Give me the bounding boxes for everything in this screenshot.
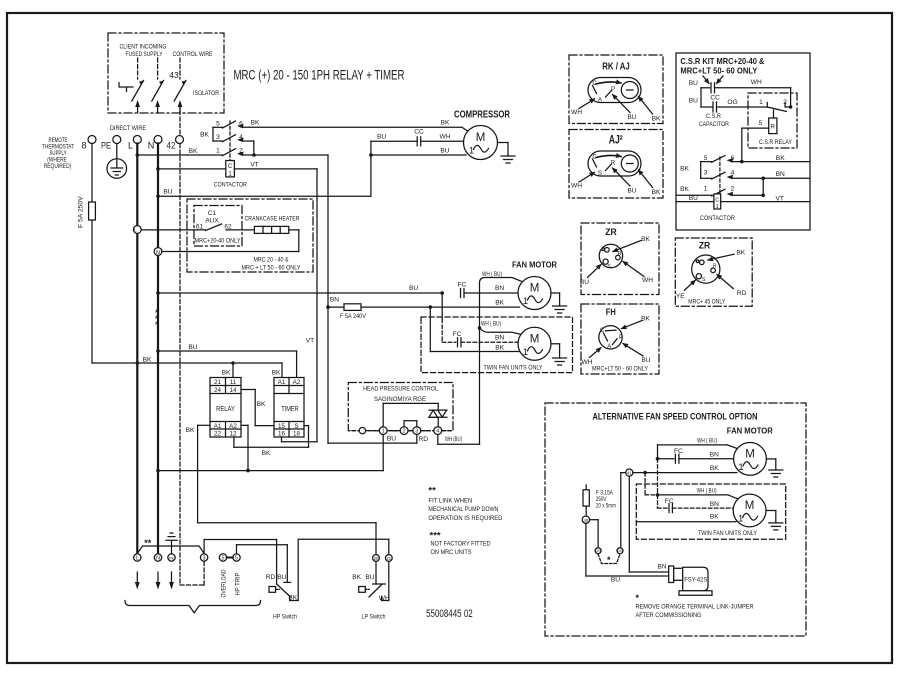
svg-text:BK: BK	[288, 595, 297, 602]
svg-text:20 x 5mm: 20 x 5mm	[596, 503, 616, 510]
svg-text:2: 2	[783, 99, 787, 106]
svg-text:3: 3	[704, 170, 708, 177]
svg-text:C.S.R RELAY: C.S.R RELAY	[759, 139, 792, 146]
svg-text:C: C	[228, 164, 233, 170]
svg-text:TWIN FAN UNITS ONLY: TWIN FAN UNITS ONLY	[698, 530, 757, 537]
svg-text:OG: OG	[617, 549, 623, 553]
svg-text:4: 4	[239, 134, 243, 141]
svg-text:BU: BU	[377, 133, 386, 140]
svg-text:MRC+LT 50- 60 ONLY: MRC+LT 50- 60 ONLY	[680, 66, 757, 76]
svg-text:C: C	[592, 81, 597, 87]
svg-text:FH: FH	[606, 307, 616, 318]
svg-text:CONTACTOR: CONTACTOR	[700, 215, 735, 222]
svg-text:BK: BK	[251, 120, 260, 127]
svg-text:P: P	[611, 87, 615, 93]
svg-text:FSY-42S: FSY-42S	[684, 577, 708, 584]
svg-text:R: R	[713, 263, 717, 269]
svg-text:BK: BK	[262, 450, 271, 457]
svg-text:M: M	[530, 283, 540, 295]
svg-text:MRC (+) 20 - 150 1PH RELAY + T: MRC (+) 20 - 150 1PH RELAY + TIMER	[234, 68, 405, 83]
svg-text:1: 1	[216, 148, 220, 155]
svg-text:BU: BU	[387, 436, 396, 443]
svg-text:N: N	[156, 250, 160, 256]
svg-text:BU: BU	[277, 574, 286, 581]
svg-text:BK: BK	[680, 166, 689, 173]
svg-text:N: N	[156, 556, 160, 562]
svg-text:M: M	[476, 132, 486, 144]
svg-text:20: 20	[374, 556, 379, 561]
svg-text:MRC 20 - 40 &: MRC 20 - 40 &	[254, 256, 289, 263]
svg-text:R: R	[771, 125, 776, 131]
svg-text:**: **	[428, 486, 436, 497]
svg-text:R: R	[611, 161, 616, 167]
svg-text:WH ( BU): WH ( BU)	[481, 320, 501, 327]
svg-text:BU: BU	[689, 80, 698, 87]
svg-text:*: *	[155, 320, 159, 330]
svg-text:C: C	[600, 328, 605, 334]
svg-text:RD: RD	[266, 574, 276, 581]
svg-text:HP TRIP: HP TRIP	[235, 573, 242, 596]
svg-text:S: S	[607, 264, 611, 270]
svg-text:43: 43	[169, 70, 179, 80]
svg-text:OG: OG	[595, 549, 601, 553]
svg-text:BK: BK	[736, 250, 745, 257]
svg-text:ALTERNATIVE FAN SPEED CONTROL: ALTERNATIVE FAN SPEED CONTROL OPTION	[593, 412, 758, 422]
svg-text:1: 1	[704, 186, 708, 193]
svg-text:A: A	[607, 344, 611, 350]
svg-text:F 5A 240V: F 5A 240V	[340, 313, 367, 320]
svg-text:CAPACITOR: CAPACITOR	[699, 121, 729, 128]
svg-text:M: M	[745, 500, 755, 512]
svg-text:RELAY: RELAY	[216, 404, 235, 413]
svg-text:OVERLOAD: OVERLOAD	[221, 569, 228, 597]
svg-text:4: 4	[436, 429, 439, 435]
svg-text:DIRECT WIRE: DIRECT WIRE	[110, 125, 146, 132]
svg-text:TWIN FAN UNITS ONLY: TWIN FAN UNITS ONLY	[484, 364, 543, 371]
svg-text:N: N	[148, 140, 155, 150]
svg-text:62: 62	[224, 224, 232, 231]
svg-text:FC: FC	[665, 498, 674, 505]
svg-text:BU: BU	[580, 279, 589, 286]
svg-text:3: 3	[415, 429, 418, 435]
svg-text:CC: CC	[710, 95, 720, 102]
svg-text:BK: BK	[200, 132, 209, 139]
svg-text:40: 40	[584, 518, 589, 523]
svg-text:1: 1	[523, 347, 528, 358]
svg-text:2: 2	[403, 429, 406, 435]
svg-text:S: S	[598, 171, 602, 177]
svg-text:YE: YE	[676, 293, 685, 300]
svg-text:1: 1	[382, 429, 385, 435]
svg-text:A2: A2	[293, 379, 301, 386]
svg-text:RD: RD	[737, 290, 747, 297]
svg-text:BU: BU	[163, 189, 172, 196]
svg-text:BK: BK	[143, 356, 152, 363]
svg-text:BK: BK	[652, 116, 661, 123]
svg-text:6: 6	[731, 155, 735, 162]
svg-text:PE: PE	[101, 140, 111, 150]
svg-text:6: 6	[239, 120, 243, 127]
svg-text:61: 61	[196, 224, 204, 231]
svg-text:*: *	[636, 593, 640, 603]
svg-text:AUX: AUX	[205, 218, 219, 225]
svg-text:L: L	[134, 228, 137, 234]
svg-text:SAGINOMIYA RGE: SAGINOMIYA RGE	[374, 396, 427, 403]
svg-text:4: 4	[731, 170, 735, 177]
svg-text:55008445 02: 55008445 02	[426, 608, 473, 620]
svg-text:MRC+ 45 ONLY: MRC+ 45 ONLY	[688, 299, 726, 306]
svg-text:M: M	[745, 448, 755, 460]
svg-text:BU: BU	[409, 285, 418, 292]
svg-text:COMPRESSOR: COMPRESSOR	[454, 110, 511, 121]
svg-text:S: S	[702, 277, 706, 283]
svg-text:A1: A1	[278, 379, 286, 386]
svg-text:BN: BN	[495, 335, 504, 342]
svg-text:C.S.R: C.S.R	[706, 113, 721, 120]
svg-text:BK: BK	[652, 189, 661, 196]
svg-text:BN: BN	[776, 171, 785, 178]
svg-text:BN: BN	[657, 564, 666, 571]
svg-text:BK: BK	[257, 401, 266, 408]
svg-text:BU: BU	[611, 577, 620, 584]
svg-text:5: 5	[222, 556, 225, 562]
svg-text:WH (BU): WH (BU)	[445, 436, 462, 443]
svg-text:BK: BK	[352, 574, 361, 581]
svg-text:BK: BK	[641, 236, 650, 243]
svg-text:MRC+LT 50 - 60 ONLY: MRC+LT 50 - 60 ONLY	[592, 366, 649, 373]
svg-text:ZR: ZR	[605, 227, 617, 238]
svg-text:HP Switch: HP Switch	[273, 614, 297, 621]
svg-text:MECHANICAL PUMP DOWN: MECHANICAL PUMP DOWN	[428, 506, 498, 513]
svg-text:*: *	[607, 555, 611, 565]
svg-text:15: 15	[278, 423, 286, 430]
svg-text:FIT LINK WHEN: FIT LINK WHEN	[428, 497, 472, 504]
svg-text:REMOVE ORANGE TERMINAL LINK-JU: REMOVE ORANGE TERMINAL LINK-JUMPER	[636, 604, 754, 611]
svg-text:TIMER: TIMER	[281, 404, 299, 413]
svg-text:A: A	[598, 98, 602, 104]
svg-text:11: 11	[230, 379, 237, 386]
svg-text:R: R	[618, 251, 622, 257]
svg-text:21: 21	[214, 379, 222, 386]
svg-text:BU: BU	[365, 574, 374, 581]
svg-text:BK: BK	[272, 369, 281, 376]
svg-text:WH: WH	[379, 595, 390, 602]
svg-text:21: 21	[386, 556, 391, 561]
svg-text:BK: BK	[710, 514, 719, 521]
svg-text:OG: OG	[727, 99, 737, 106]
svg-text:A1: A1	[214, 423, 222, 430]
svg-text:P: P	[619, 335, 623, 341]
svg-text:BU: BU	[440, 147, 449, 154]
svg-text:1: 1	[738, 514, 743, 525]
svg-text:C: C	[715, 198, 719, 204]
svg-text:L: L	[128, 140, 133, 150]
svg-text:FAN MOTOR: FAN MOTOR	[512, 261, 557, 270]
svg-text:12: 12	[229, 431, 237, 438]
svg-text:REQUIRED): REQUIRED)	[44, 163, 72, 170]
svg-text:FC: FC	[453, 331, 462, 338]
svg-text:1: 1	[738, 462, 743, 473]
svg-text:CONTROL WIRE: CONTROL WIRE	[173, 51, 213, 58]
svg-text:C: C	[592, 155, 597, 161]
svg-text:FUSED SUPPLY: FUSED SUPPLY	[126, 51, 163, 58]
svg-text:BK: BK	[186, 427, 195, 434]
svg-text:L: L	[136, 556, 139, 562]
svg-text:MRC+20-40 ONLY: MRC+20-40 ONLY	[195, 238, 242, 245]
svg-text:ZR: ZR	[699, 241, 711, 252]
svg-text:CC: CC	[414, 128, 424, 135]
svg-text:OPERATION IS REQUIRED: OPERATION IS REQUIRED	[428, 515, 502, 522]
svg-text:BN: BN	[710, 451, 719, 458]
svg-text:3: 3	[203, 556, 206, 562]
svg-text:**: **	[144, 538, 152, 548]
svg-text:BK: BK	[441, 120, 450, 127]
svg-text:WH: WH	[751, 79, 762, 86]
svg-text:24: 24	[214, 387, 222, 394]
svg-text:1: 1	[716, 204, 719, 210]
svg-text:8: 8	[81, 140, 86, 150]
svg-text:S: S	[294, 423, 298, 430]
svg-text:BU: BU	[627, 114, 636, 121]
svg-text:BK: BK	[710, 465, 719, 472]
svg-text:1: 1	[759, 99, 763, 106]
svg-text:5: 5	[704, 155, 708, 162]
svg-text:22: 22	[214, 431, 222, 438]
svg-text:ON MRC UNITS: ON MRC UNITS	[431, 549, 472, 556]
svg-text:AFTER COMMISSIONING: AFTER COMMISSIONING	[636, 612, 702, 619]
svg-text:BK: BK	[495, 299, 504, 306]
svg-text:BK: BK	[641, 316, 650, 323]
svg-text:CLIENT INCOMING: CLIENT INCOMING	[120, 44, 167, 51]
svg-text:WH ( BU): WH ( BU)	[697, 437, 717, 444]
svg-text:WH ( BU): WH ( BU)	[482, 271, 502, 278]
svg-text:3: 3	[216, 134, 220, 141]
svg-text:CRANKCASE HEATER: CRANKCASE HEATER	[245, 216, 300, 223]
svg-text:BU: BU	[627, 188, 636, 195]
svg-text:BK: BK	[495, 344, 504, 351]
svg-text:C.S.R KIT MRC+20-40 &: C.S.R KIT MRC+20-40 &	[680, 56, 764, 66]
svg-text:42: 42	[167, 140, 176, 150]
svg-text:F 5A 250V: F 5A 250V	[78, 196, 85, 228]
svg-text:WH: WH	[440, 133, 451, 140]
svg-text:5: 5	[235, 556, 238, 562]
svg-text:NOT FACTORY FITTED: NOT FACTORY FITTED	[431, 541, 491, 548]
svg-text:2: 2	[731, 186, 735, 193]
svg-text:A2: A2	[229, 423, 237, 430]
svg-text:FC: FC	[458, 281, 467, 288]
svg-text:M: M	[530, 333, 540, 345]
svg-text:BU: BU	[641, 357, 650, 364]
svg-text:RK / AJ: RK / AJ	[602, 62, 630, 73]
svg-text:5: 5	[759, 120, 763, 127]
svg-text:MRC + LT 50 - 60 ONLY: MRC + LT 50 - 60 ONLY	[242, 264, 301, 271]
svg-text:WH: WH	[571, 183, 582, 190]
svg-text:1: 1	[469, 146, 474, 157]
svg-text:ISOLATOR: ISOLATOR	[193, 90, 219, 97]
svg-text:BN: BN	[710, 501, 719, 508]
svg-text:2: 2	[239, 148, 243, 155]
svg-text:VT: VT	[775, 195, 783, 202]
svg-text:VT: VT	[306, 338, 314, 345]
svg-text:WH ( BU): WH ( BU)	[697, 487, 717, 494]
svg-text:BN: BN	[495, 285, 504, 292]
svg-text:VT: VT	[250, 162, 258, 169]
svg-text:BU: BU	[689, 195, 698, 202]
svg-text:WH: WH	[642, 277, 653, 284]
svg-text:16: 16	[278, 431, 286, 438]
svg-text:BU: BU	[689, 98, 698, 105]
svg-text:FC: FC	[674, 448, 683, 455]
svg-text:AJ²: AJ²	[609, 133, 623, 147]
svg-text:HEAD PRESSURE CONTROL: HEAD PRESSURE CONTROL	[363, 386, 438, 393]
svg-text:BU: BU	[188, 344, 197, 351]
svg-text:41: 41	[627, 471, 632, 476]
svg-text:LP Switch: LP Switch	[362, 614, 386, 621]
svg-text:5: 5	[216, 120, 220, 127]
svg-text:1: 1	[523, 296, 528, 307]
svg-text:BK: BK	[222, 369, 231, 376]
svg-text:WH: WH	[571, 109, 582, 116]
svg-text:FAN MOTOR: FAN MOTOR	[727, 426, 773, 435]
svg-text:BN: BN	[330, 297, 339, 304]
svg-text:BK: BK	[189, 148, 198, 155]
svg-text:CONTACTOR: CONTACTOR	[214, 182, 247, 189]
svg-text:18: 18	[293, 431, 301, 438]
svg-text:14: 14	[229, 387, 237, 394]
svg-text:C1: C1	[208, 210, 217, 217]
svg-text:BK: BK	[680, 186, 689, 193]
svg-text:BK: BK	[776, 155, 785, 162]
svg-text:PE: PE	[169, 556, 175, 561]
svg-text:RD: RD	[419, 436, 429, 443]
